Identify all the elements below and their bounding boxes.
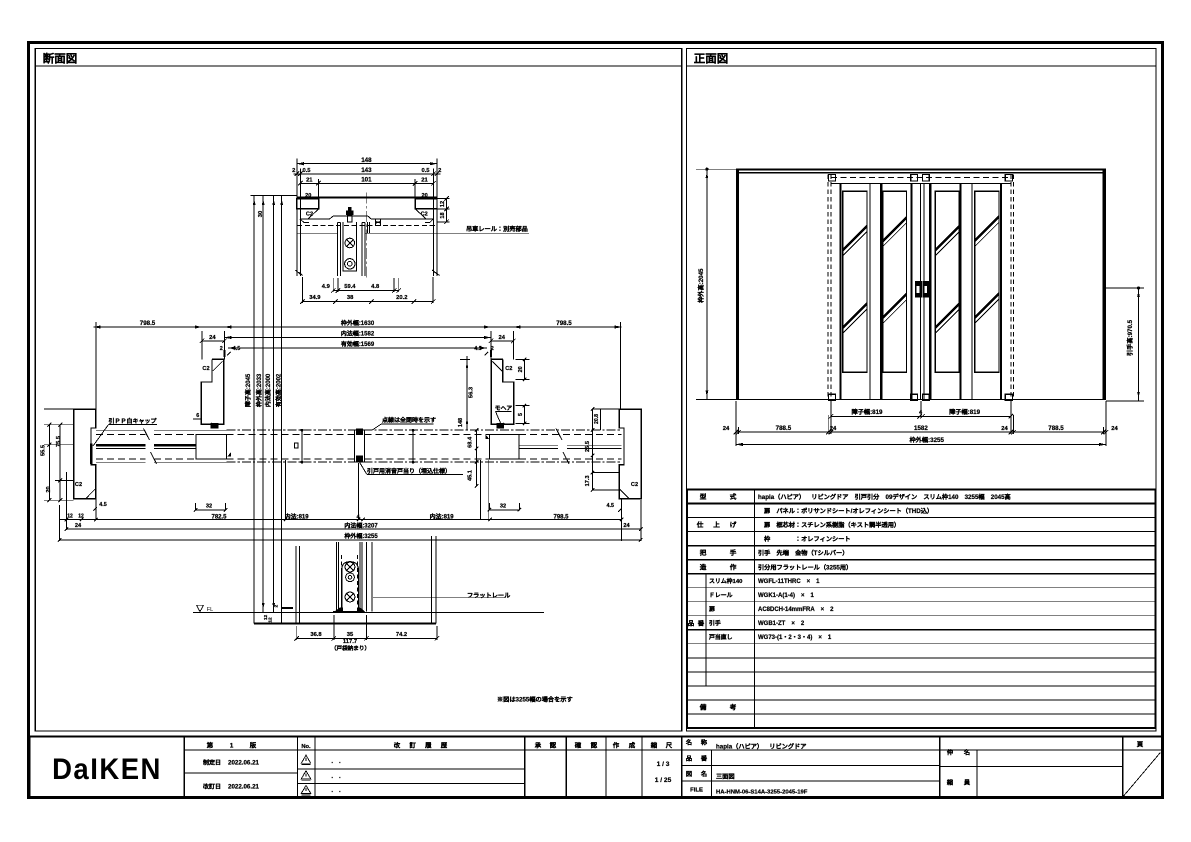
svg-text:4.5: 4.5 — [474, 344, 482, 352]
right jamb profile — [491, 359, 514, 424]
hanger door leaf top — [336, 222, 338, 276]
svg-text:1582: 1582 — [914, 423, 928, 432]
svg-text:18: 18 — [438, 212, 446, 218]
svg-text:12: 12 — [438, 201, 446, 207]
svg-text:30: 30 — [255, 211, 264, 217]
svg-text:788.5: 788.5 — [776, 423, 792, 432]
elevation dim extension lines — [735, 401, 737, 446]
right jamb dim 5 bracket — [516, 405, 530, 407]
svg-text:点線は全閉時を示す: 点線は全閉時を示す — [382, 415, 436, 424]
svg-text:12: 12 — [78, 512, 84, 519]
svg-text:2022.06.21: 2022.06.21 — [228, 758, 260, 767]
svg-text:手: 手 — [730, 547, 737, 557]
svg-text:改: 改 — [394, 741, 401, 750]
svg-text:造: 造 — [700, 561, 707, 571]
right panel border (shomenzu) — [687, 49, 1157, 732]
svg-text:4.5: 4.5 — [233, 344, 241, 352]
left panel header line — [35, 65, 682, 67]
svg-text:4.9: 4.9 — [322, 281, 331, 290]
title block revision row lines — [298, 768, 525, 770]
svg-text:6: 6 — [196, 411, 199, 419]
svg-text:枠外幅:3255: 枠外幅:3255 — [343, 531, 378, 540]
rail mini dim arrows — [375, 218, 377, 226]
svg-text:履: 履 — [424, 741, 432, 750]
svg-text:引手高:970.5: 引手高:970.5 — [1125, 319, 1134, 356]
svg-text:34.9: 34.9 — [309, 292, 321, 301]
svg-text:引手 先端 金物（Tシルバー）: 引手 先端 金物（Tシルバー） — [758, 548, 848, 557]
title block first-edition rows — [184, 772, 297, 774]
svg-text:訂: 訂 — [409, 741, 416, 750]
hanger plate — [343, 222, 357, 271]
pocket double lines right — [519, 444, 558, 446]
svg-text:内法:819: 内法:819 — [285, 511, 310, 520]
page cell diagonal — [1124, 753, 1161, 797]
svg-text:障子幅:819: 障子幅:819 — [852, 407, 884, 416]
kamoi left wall — [296, 176, 298, 276]
door band bottom edge solid+dashdot — [96, 461, 146, 463]
svg-text:フラットレール: フラットレール — [467, 590, 511, 599]
kamoi bottom dashed face — [297, 225, 435, 227]
elevation dim row 819s — [831, 415, 1011, 417]
bottom detail base line — [254, 622, 436, 624]
svg-text:74.2: 74.2 — [396, 629, 407, 638]
svg-text:4.5: 4.5 — [607, 501, 615, 509]
left wall end cap — [74, 409, 96, 498]
leaf1 end box — [196, 434, 227, 459]
svg-text:式: 式 — [730, 491, 737, 501]
top detail bottom dim row 4.9-59.4-4.8 — [333, 290, 399, 292]
svg-text:吊車レール：別売部品: 吊車レール：別売部品 — [466, 224, 528, 233]
centerline of track — [366, 193, 368, 280]
svg-text:引手: 引手 — [709, 618, 721, 627]
svg-text:38: 38 — [347, 292, 354, 301]
break marks — [144, 429, 150, 441]
bottom detail wall right — [431, 536, 433, 624]
left panel border (dammenzu) — [35, 49, 682, 732]
svg-text:有効高:2002: 有効高:2002 — [273, 373, 282, 407]
svg-text:24: 24 — [75, 521, 82, 529]
title block name rows — [682, 764, 940, 766]
svg-text:68.4: 68.4 — [465, 436, 473, 448]
closed position marker left — [301, 430, 303, 462]
top detail dim 21-101-21 — [300, 182, 433, 184]
svg-text:2022.06.21: 2022.06.21 — [228, 782, 260, 791]
svg-text:798.5: 798.5 — [140, 318, 156, 327]
svg-text:20: 20 — [516, 366, 524, 372]
top detail bottom dim row 34.9-38-20.2 — [302, 301, 433, 303]
svg-text:21: 21 — [306, 175, 313, 184]
svg-text:スリム枠140: スリム枠140 — [709, 576, 743, 585]
svg-text:12: 12 — [267, 617, 274, 623]
svg-text:FILE: FILE — [690, 785, 703, 794]
svg-text:75.5: 75.5 — [54, 436, 62, 447]
svg-text:縮: 縮 — [650, 741, 658, 750]
svg-text:24: 24 — [623, 521, 630, 529]
mohair seal right jamb — [497, 423, 505, 429]
svg-text:成: 成 — [629, 741, 636, 750]
svg-text:. .: . . — [331, 771, 341, 780]
svg-text:備: 備 — [699, 702, 707, 712]
closed-position pointer triangle — [486, 435, 490, 439]
svg-text:C2: C2 — [505, 364, 512, 372]
svg-text:55.5: 55.5 — [39, 445, 47, 456]
svg-text:782.5: 782.5 — [211, 511, 227, 520]
dim 56.3 right jamb — [466, 359, 468, 430]
floor roller stadium — [342, 562, 359, 608]
elevation dim row 3255 — [736, 443, 1106, 445]
svg-text:2: 2 — [220, 344, 223, 352]
svg-text:hapia（ハピア） リビングドア: hapia（ハピア） リビングドア — [716, 742, 806, 751]
break marks right — [556, 429, 562, 441]
svg-text:モヘア: モヘア — [495, 403, 513, 412]
svg-text:考: 考 — [729, 702, 737, 712]
break marks bottom of walls — [295, 270, 303, 276]
hanger roller lower — [345, 259, 355, 269]
svg-text:143: 143 — [361, 165, 372, 174]
right cap dims 20.8 25.5 17.3 — [592, 409, 594, 490]
svg-text:798.5: 798.5 — [553, 511, 569, 520]
right side bracket dims 12-18 — [437, 198, 450, 200]
dashed track line — [831, 177, 1011, 179]
svg-text:図: 図 — [686, 769, 692, 778]
right step block — [415, 199, 437, 209]
title block header line — [184, 749, 1162, 751]
kamoi inner web — [300, 216, 433, 219]
svg-text:三面図: 三面図 — [716, 772, 735, 781]
PP white cap (thick bar) — [90, 443, 93, 464]
svg-text:作: 作 — [730, 561, 737, 571]
leaf verticals — [839, 183, 841, 399]
svg-text:上: 上 — [713, 519, 720, 529]
middle bottom dim row 819s — [59, 519, 621, 521]
svg-text:歴: 歴 — [441, 741, 448, 750]
top detail dim 148 — [297, 163, 437, 165]
bottom detail leaf walls — [336, 542, 338, 611]
svg-text:第: 第 — [206, 741, 214, 750]
svg-text:32: 32 — [500, 502, 506, 510]
glass pane boxes — [843, 191, 867, 372]
elevation right vertical dim 970.5 — [1138, 288, 1140, 401]
svg-text:798.5: 798.5 — [556, 318, 572, 327]
svg-text:59.4: 59.4 — [344, 281, 356, 290]
svg-text:有効幅:1569: 有効幅:1569 — [341, 339, 375, 348]
svg-text:0.5: 0.5 — [302, 165, 311, 174]
svg-text:障子幅:819: 障子幅:819 — [949, 407, 981, 416]
svg-text:WG73-(1・2・3・4) × 1: WG73-(1・2・3・4) × 1 — [758, 632, 832, 641]
svg-text:C2: C2 — [202, 364, 209, 372]
svg-text:2: 2 — [273, 605, 280, 608]
top detail dim 2-0.5-143-0.5-2 — [294, 173, 441, 175]
svg-text:断面図: 断面図 — [43, 51, 78, 67]
svg-text:20: 20 — [305, 191, 311, 199]
kamoi right wall — [433, 176, 435, 276]
svg-text:引ＰＰ白キャップ: 引ＰＰ白キャップ — [109, 416, 158, 425]
svg-text:hapia（ハピア） リビングドア 引戸引分 09デザイン: hapia（ハピア） リビングドア 引戸引分 09デザイン スリム枠140 32… — [758, 492, 1011, 501]
svg-text:名: 名 — [963, 748, 970, 757]
svg-text:扉 框芯材：スチレン系樹脂（キスト調半透用）: 扉 框芯材：スチレン系樹脂（キスト調半透用） — [763, 520, 900, 529]
FL marker — [197, 605, 204, 611]
right jamb dim 20 bracket — [516, 358, 530, 360]
svg-text:Ｆレール: Ｆレール — [709, 590, 733, 599]
svg-text:. .: . . — [331, 785, 341, 794]
svg-text:24: 24 — [723, 423, 730, 432]
left jamb profile — [201, 359, 224, 424]
right panel header line — [687, 65, 1157, 67]
svg-text:内法幅:1582: 内法幅:1582 — [341, 328, 375, 337]
svg-text:枠外高:2045: 枠外高:2045 — [696, 268, 705, 304]
door frame bottom line — [736, 399, 1106, 401]
bottom detail wall left — [295, 546, 297, 624]
leaf top rail line — [831, 182, 1011, 184]
svg-text:扉 パネル：ポリサンドシート/オレフィンシート（THD込）: 扉 パネル：ポリサンドシート/オレフィンシート（THD込） — [763, 506, 933, 515]
svg-text:（戸袋納まり）: （戸袋納まり） — [331, 644, 370, 652]
svg-text:20.2: 20.2 — [396, 292, 407, 301]
title block outer — [30, 737, 1163, 797]
svg-text:縮: 縮 — [946, 778, 954, 787]
svg-text:WGK1-A(1-4) × 1: WGK1-A(1-4) × 1 — [758, 590, 815, 599]
svg-text:148: 148 — [361, 155, 372, 164]
left step block — [297, 199, 319, 209]
svg-text:げ: げ — [730, 519, 737, 529]
hanger roller upper — [345, 238, 355, 248]
svg-text:称: 称 — [701, 738, 708, 747]
svg-text:戸当直し: 戸当直し — [708, 632, 733, 641]
svg-text:32: 32 — [206, 502, 212, 510]
svg-text:101: 101 — [361, 175, 372, 184]
svg-text:20: 20 — [44, 486, 52, 492]
closed leaf dashed bottom edge — [96, 458, 146, 460]
svg-text:C2: C2 — [421, 210, 428, 218]
svg-text:1: 1 — [230, 741, 234, 750]
svg-text:24: 24 — [1111, 423, 1118, 432]
middle top dim row2 1582 — [224, 337, 491, 339]
right C2 chamfer — [415, 209, 426, 219]
svg-text:24: 24 — [498, 332, 505, 341]
hanger bolt — [348, 207, 352, 211]
svg-text:1 / 3: 1 / 3 — [657, 758, 670, 768]
middle top dim row3 1569 — [228, 347, 487, 349]
svg-text:※図は3255幅の場合を示す: ※図は3255幅の場合を示す — [497, 695, 573, 704]
flat rail section — [334, 608, 343, 612]
svg-text:引戸用消音戸当り（埋込仕様）: 引戸用消音戸当り（埋込仕様） — [367, 466, 451, 475]
svg-text:枠外幅:3255: 枠外幅:3255 — [909, 435, 945, 444]
spec table hinban sub divider — [705, 574, 707, 686]
dim 24 right jamb — [491, 340, 513, 342]
revision warning triangles — [301, 755, 310, 763]
svg-text:2: 2 — [292, 165, 295, 174]
svg-text:扉: 扉 — [708, 604, 715, 613]
svg-text:AC8DCH-14mmFRA × 2: AC8DCH-14mmFRA × 2 — [758, 604, 834, 613]
svg-text:C2: C2 — [306, 210, 313, 218]
svg-text:788.5: 788.5 — [1048, 423, 1064, 432]
left cap outer dims 55.5 75.5 20 — [48, 425, 50, 501]
svg-text:正面図: 正面図 — [694, 51, 729, 67]
spec table row lines — [687, 503, 1156, 505]
elevation dim row widths — [736, 431, 1106, 433]
svg-text:24: 24 — [1001, 423, 1008, 432]
svg-text:. .: . . — [331, 756, 341, 765]
svg-text:148: 148 — [456, 418, 464, 427]
svg-text:名: 名 — [700, 769, 707, 778]
svg-text:名: 名 — [685, 738, 692, 747]
closed leaf dashed top edge — [96, 433, 146, 435]
svg-text:20.8: 20.8 — [593, 414, 600, 424]
svg-text:12: 12 — [67, 512, 73, 519]
middle bottom dim 3207 — [66, 528, 640, 530]
svg-text:頁: 頁 — [1137, 740, 1144, 749]
svg-text:1 / 25: 1 / 25 — [655, 774, 672, 784]
middle top dim row1 798.5 / 1630 / 798.5 — [94, 326, 622, 328]
svg-text:C2: C2 — [631, 480, 638, 488]
leaf1 thick edge line with break — [96, 444, 146, 446]
left C2 chamfer — [308, 209, 319, 219]
svg-text:障子高:2045: 障子高:2045 — [243, 373, 252, 407]
svg-text:20: 20 — [421, 191, 427, 199]
band dim lines 148 68.4 45.1 — [466, 356, 468, 430]
right wall end cap — [619, 409, 641, 498]
svg-text:認: 認 — [550, 741, 557, 750]
spec table label column divider — [754, 490, 756, 729]
svg-text:枠外高:2033: 枠外高:2033 — [254, 373, 263, 408]
svg-text:作: 作 — [613, 741, 620, 750]
rail bracket lines — [367, 222, 369, 233]
bottom detail guide lines — [366, 542, 368, 612]
svg-text:枠外幅:1630: 枠外幅:1630 — [340, 318, 375, 327]
svg-text:確: 確 — [574, 741, 582, 750]
svg-text:24: 24 — [209, 332, 216, 341]
bottom dim extension lines — [58, 505, 60, 541]
svg-text:品: 品 — [686, 753, 692, 762]
vertical dim line cluster — [253, 196, 255, 624]
svg-text:枠 ：オレフィンシート: 枠 ：オレフィンシート — [763, 534, 851, 543]
svg-text:No.: No. — [301, 741, 311, 750]
opening dashed verticals right — [1010, 175, 1012, 400]
svg-text:WGB1-ZT × 2: WGB1-ZT × 2 — [758, 618, 805, 627]
dim 24 left jamb — [202, 340, 225, 342]
floor line — [193, 611, 544, 613]
svg-text:品: 品 — [688, 618, 695, 627]
middle bottom dim 3255 — [59, 539, 640, 541]
door frame top band — [736, 168, 1106, 170]
door band top edge solid+dashdot — [96, 429, 146, 431]
svg-text:把: 把 — [700, 547, 707, 557]
svg-text:0.5: 0.5 — [421, 165, 430, 174]
svg-text:仲: 仲 — [947, 748, 953, 757]
svg-text:45.1: 45.1 — [465, 470, 473, 481]
svg-text:FL: FL — [207, 605, 213, 613]
svg-text:改訂日: 改訂日 — [203, 782, 221, 791]
svg-text:型: 型 — [700, 491, 707, 501]
svg-text:承: 承 — [534, 741, 542, 750]
svg-text:内法:819: 内法:819 — [430, 511, 455, 520]
svg-text:版: 版 — [249, 741, 257, 750]
svg-text:17.3: 17.3 — [583, 475, 591, 486]
spec table outer — [687, 490, 1156, 729]
svg-text:4.5: 4.5 — [99, 500, 107, 508]
svg-text:25.5: 25.5 — [583, 441, 591, 452]
door frame left stile thick — [736, 169, 739, 399]
middle bottom dim 32 left — [196, 509, 226, 511]
kamoi top frame outline — [297, 196, 437, 198]
svg-text:番: 番 — [700, 753, 708, 762]
middle bottom dim 32 right — [489, 509, 519, 511]
svg-text:WGFL-11THRC × 1: WGFL-11THRC × 1 — [758, 576, 820, 585]
meeting stile box with dampers — [355, 430, 365, 462]
svg-text:C2: C2 — [75, 480, 82, 488]
hanger covers top — [829, 174, 836, 181]
hanger rail line — [297, 232, 337, 234]
svg-text:制定日: 制定日 — [203, 758, 221, 767]
svg-text:内法幅:3207: 内法幅:3207 — [344, 520, 378, 529]
door frame right stile thick — [1103, 169, 1106, 399]
svg-text:員: 員 — [963, 778, 971, 787]
svg-text:HA-HNM-06-S14A-3255-2045-19F: HA-HNM-06-S14A-3255-2045-19F — [716, 787, 808, 796]
svg-text:21: 21 — [421, 175, 428, 184]
title block verticals — [183, 737, 185, 797]
svg-text:仕: 仕 — [696, 519, 704, 529]
svg-text:番: 番 — [697, 618, 705, 627]
svg-text:認: 認 — [591, 741, 598, 750]
door pulls — [915, 281, 922, 298]
svg-text:DaIKEN: DaIKEN — [52, 753, 162, 786]
floor guides bottom — [829, 394, 836, 400]
svg-text:内法高:2000: 内法高:2000 — [263, 373, 272, 407]
title block sakusei col — [940, 766, 1123, 768]
bottom detail dims 36.8-35-74.2 — [297, 637, 437, 639]
svg-text:5: 5 — [516, 413, 524, 416]
svg-text:2: 2 — [438, 165, 441, 174]
closed position marker right — [412, 430, 414, 462]
svg-text:尺: 尺 — [665, 741, 673, 750]
pocket edge box right — [490, 434, 519, 459]
elevation left vertical dim 2045 — [706, 169, 708, 399]
roller wheels — [345, 562, 355, 572]
svg-text:引分用フラットレール（3255用）: 引分用フラットレール（3255用） — [758, 562, 852, 571]
opening dashed verticals left — [827, 175, 829, 400]
svg-text:36.8: 36.8 — [310, 629, 322, 638]
svg-text:4.8: 4.8 — [371, 281, 380, 290]
